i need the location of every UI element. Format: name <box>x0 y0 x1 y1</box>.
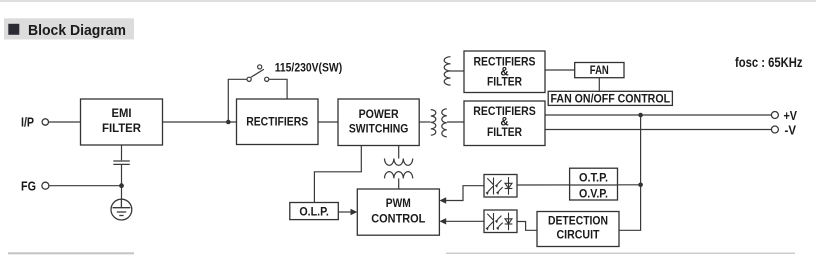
svg-text:FILTER: FILTER <box>487 77 523 89</box>
optocoupler U1 <box>484 175 517 198</box>
switch SW1 contact right <box>265 77 269 81</box>
transformer T1 secondary winding <box>442 109 447 137</box>
svg-text:FAN: FAN <box>590 65 609 77</box>
section heading bar <box>4 18 134 39</box>
FAN box <box>575 63 624 78</box>
svg-text:CIRCUIT: CIRCUIT <box>557 229 600 241</box>
wire POWER SWITCHING to primary coil <box>419 121 430 123</box>
O.L.P. box <box>290 203 339 220</box>
wire aux coil to top RECTIFIERS &amp; FILTER <box>451 70 465 72</box>
wire opto2 to PWM CONTROL <box>446 220 484 222</box>
wire FG to ground node <box>49 185 122 187</box>
capacitor Y plate bottom <box>113 163 130 165</box>
svg-text:Block Diagram: Block Diagram <box>28 22 126 39</box>
junction dot at switch/main wire <box>226 120 231 125</box>
terminal +V <box>771 112 778 119</box>
svg-text:EMI: EMI <box>112 108 132 120</box>
wire feedback winding to PWM CONTROL <box>398 178 400 189</box>
capacitor Y plate top <box>113 160 130 162</box>
svg-text:FILTER: FILTER <box>487 127 523 139</box>
top hairline <box>0 0 816 2</box>
svg-text:I/P: I/P <box>21 115 34 130</box>
wire capacitor to ground symbol <box>121 164 123 199</box>
feedback winding bottom row <box>385 172 413 179</box>
svg-text:FG: FG <box>21 179 36 194</box>
wire +V output line <box>545 114 771 116</box>
feedback winding top row <box>385 159 413 166</box>
svg-text:SWITCHING: SWITCHING <box>349 123 409 135</box>
wire I/P to EMI FILTER <box>48 121 80 123</box>
wire opto1 to PWM CONTROL <box>446 186 484 201</box>
heading bullet square <box>8 24 19 35</box>
junction dot +V bus top <box>638 113 643 118</box>
svg-text:-V: -V <box>785 122 797 137</box>
next section heading bar (cut off) <box>8 252 134 254</box>
wire +V bus vertical <box>619 115 641 230</box>
svg-text:DETECTION: DETECTION <box>548 215 608 227</box>
RECTIFIERS box <box>237 99 319 145</box>
wire RECTIFIERS to POWER SWITCHING <box>318 121 338 123</box>
switch SW1 contact left <box>247 77 251 81</box>
junction dot OTP line / bus <box>638 183 643 188</box>
next section table top border (cut off) <box>446 252 795 254</box>
arrowhead opto2 into PWM <box>439 218 446 224</box>
svg-text:O.T.P.: O.T.P. <box>579 173 608 185</box>
wire switch right to RECTIFIERS top <box>269 79 287 99</box>
wire top R&amp;F to FAN <box>545 69 575 71</box>
svg-text:POWER: POWER <box>359 109 400 121</box>
optocoupler U2 <box>484 210 517 233</box>
wire POWER SWITCHING bottom to feedback winding <box>398 146 400 159</box>
wire switch left vertical <box>228 79 247 122</box>
junction dot FG/cap <box>119 183 124 188</box>
POWER SWITCHING box <box>338 99 419 146</box>
wire EMI FILTER to RECTIFIERS <box>163 121 237 123</box>
svg-text:PWM: PWM <box>386 198 411 210</box>
EMI FILTER box <box>81 99 163 145</box>
wire O.L.P. to PWM CONTROL <box>338 211 352 213</box>
wire -V output line <box>545 129 771 131</box>
wire POWER SWITCHING bottom to O.L.P. <box>314 146 361 203</box>
switch SW1 contact top <box>258 65 262 69</box>
FAN ON/OFF CONTROL box <box>548 91 672 105</box>
O.T.P. / O.V.P. box <box>570 168 618 200</box>
terminal I/P <box>42 119 48 125</box>
wire opto1 to O.T.P. O.V.P. divider <box>517 184 641 186</box>
svg-text:CONTROL: CONTROL <box>371 214 425 226</box>
RECTIFIERS & FILTER box (fan supply) <box>464 51 545 93</box>
terminal FG <box>42 182 49 189</box>
transformer T1 auxiliary winding <box>444 57 450 85</box>
ground symbol <box>111 199 132 220</box>
svg-text:FILTER: FILTER <box>102 123 142 135</box>
arrowhead O.L.P. into PWM <box>351 209 358 215</box>
RECTIFIERS & FILTER box (output) <box>464 101 545 146</box>
svg-text:RECTIFIERS: RECTIFIERS <box>246 117 308 129</box>
svg-text:O.V.P.: O.V.P. <box>579 189 608 201</box>
svg-text:O.L.P.: O.L.P. <box>299 206 329 218</box>
wire opto2 to DETECTION CIRCUIT <box>517 222 537 231</box>
transformer T1 primary winding <box>431 110 436 136</box>
arrowhead opto1 into PWM <box>439 197 446 203</box>
DETECTION CIRCUIT box <box>537 212 619 247</box>
svg-text:fosc : 65KHz: fosc : 65KHz <box>735 54 803 70</box>
wire FAN to FAN ON/OFF CONTROL <box>598 78 600 92</box>
svg-text:+V: +V <box>784 108 798 123</box>
wire secondary coil to RECTIFIERS &amp; FILTER <box>447 121 464 123</box>
svg-text:FAN ON/OFF CONTROL: FAN ON/OFF CONTROL <box>551 92 671 106</box>
terminal -V <box>771 126 778 133</box>
switch lever <box>251 69 264 77</box>
wire EMI FILTER to capacitor Y <box>121 145 123 160</box>
svg-text:115/230V(SW): 115/230V(SW) <box>275 61 343 75</box>
PWM CONTROL box <box>357 189 439 235</box>
